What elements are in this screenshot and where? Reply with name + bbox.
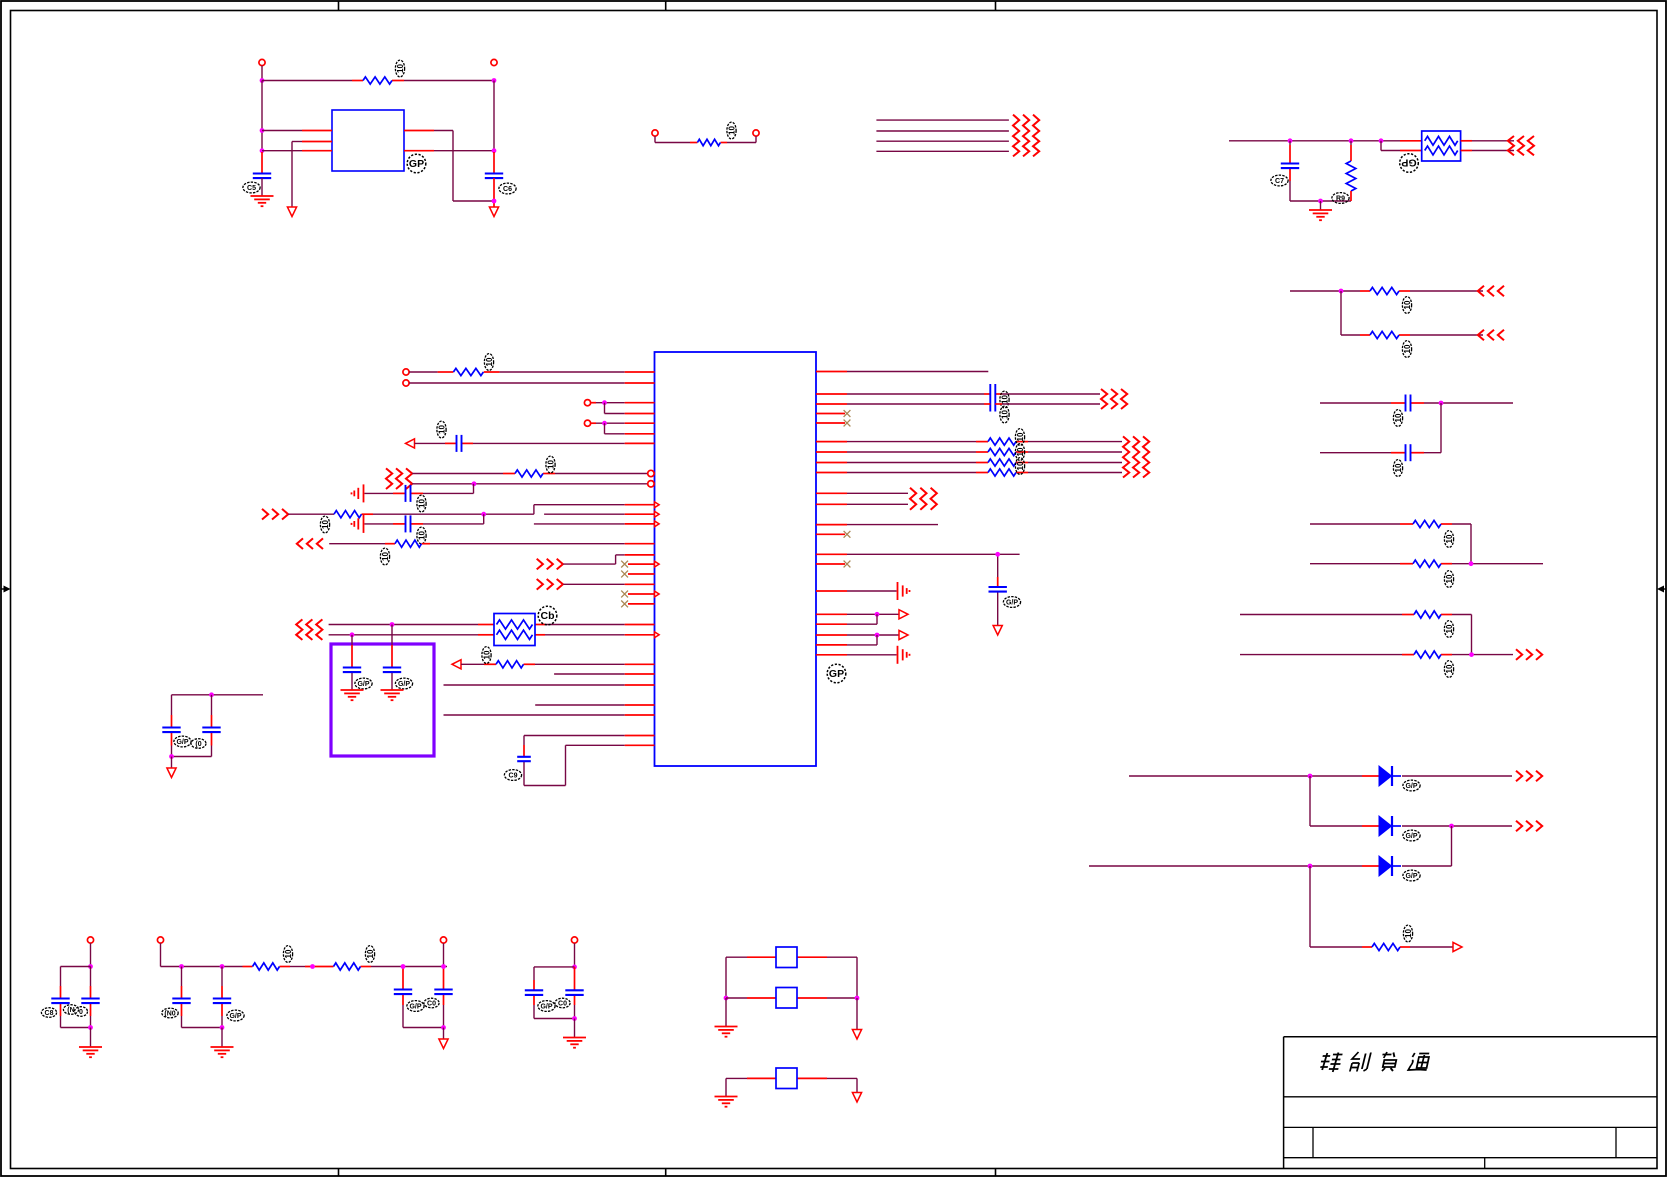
wire gnd stub TR <box>1320 201 1322 210</box>
no-connect X L-564 <box>621 561 628 568</box>
inverted pin bubble L8 <box>648 470 654 476</box>
wire U1-L6 stub <box>605 423 655 434</box>
capacitor C20 <box>213 999 231 1004</box>
resistor R7 <box>1413 560 1441 567</box>
wire C11 branch <box>351 635 353 690</box>
label C23 <box>538 1001 555 1012</box>
diode D1 <box>1379 766 1401 786</box>
label R1 <box>395 60 405 77</box>
wire U1-L11 net with R13 <box>288 505 654 515</box>
ground GND11 <box>563 1038 586 1048</box>
no-connect stub R-564 <box>816 561 850 568</box>
wire RP1 row1 <box>329 624 655 626</box>
label C23b <box>555 998 570 1008</box>
junction RG2 <box>1339 289 1344 294</box>
label C17 <box>41 1008 56 1018</box>
svg-text:G/P: G/P <box>1405 873 1417 880</box>
wire U1-L19 net <box>554 673 654 675</box>
no-connect X L-594 <box>621 591 628 598</box>
logo text Wistron <box>1319 1052 1431 1072</box>
wire D1 net <box>1129 775 1512 777</box>
label C20 <box>227 1010 244 1021</box>
off-page connector L left-arrow <box>297 538 323 549</box>
label D1 <box>1403 780 1420 791</box>
svg-text:10: 10 <box>1404 929 1413 938</box>
ground GND10 <box>211 1047 234 1057</box>
pin P8 <box>584 420 590 426</box>
off-page connector TR left-pair <box>1508 136 1534 155</box>
label C21b <box>424 998 439 1008</box>
resistor R5 <box>1370 331 1399 338</box>
wire R10 net <box>1310 946 1453 948</box>
resistor R3 (vertical) <box>1346 161 1356 191</box>
junction R13b <box>875 612 880 617</box>
wire U1-L1 net with R11 <box>409 371 654 373</box>
wire BL1 top <box>90 943 92 966</box>
pin P3 <box>652 130 658 136</box>
capacitor C12 <box>162 728 180 733</box>
wire BL1 right cap branch <box>90 967 92 1028</box>
wire DG vert2 <box>1451 826 1453 866</box>
power arrow A11 <box>852 1030 861 1040</box>
label C9 <box>504 770 521 781</box>
label R16 <box>1015 429 1025 446</box>
svg-text:G/P: G/P <box>409 1003 421 1010</box>
resistor R12 <box>515 470 543 477</box>
pin P10 <box>157 937 163 943</box>
no-connect X L-574 <box>621 571 628 578</box>
wire C3 bottom rail <box>1290 200 1351 202</box>
wire U1-R16 net <box>816 635 877 645</box>
label C19 <box>162 1008 178 1018</box>
resistor R8 <box>1414 611 1441 618</box>
wire BL4 gnd <box>574 1019 576 1038</box>
label C12 <box>174 736 191 747</box>
junction DG-A <box>1308 774 1313 779</box>
border zone tick bottom 3 <box>995 1169 997 1177</box>
svg-text:R9: R9 <box>1336 195 1345 202</box>
junction FB-A <box>724 996 729 1001</box>
ferrite bead FB1 <box>776 947 797 968</box>
pin P6 <box>403 380 409 386</box>
power arrow A2 <box>489 207 498 217</box>
junction R15b <box>875 633 880 638</box>
power arrow A3 <box>1453 942 1462 951</box>
wire BL2 rail <box>161 966 448 968</box>
ground GND12 <box>715 1027 738 1037</box>
capacitor C7 <box>406 485 411 502</box>
label R6 <box>1444 531 1454 548</box>
capacitor C2 <box>485 174 503 179</box>
off-page connector L single3 <box>537 579 563 590</box>
svg-text:G/P: G/P <box>229 1013 241 1020</box>
svg-text:C9: C9 <box>509 772 518 779</box>
junction L9 <box>472 481 477 486</box>
no-connect stub L-604 <box>628 603 655 605</box>
svg-text:G/P: G/P <box>540 1003 552 1010</box>
no-connect stub L-564 <box>628 563 655 565</box>
resistor R14 <box>395 540 422 547</box>
wire link with R2 pins <box>655 136 756 142</box>
wire C3 branch <box>1289 141 1291 201</box>
svg-text:Cb: Cb <box>541 610 555 622</box>
wire U1-L4 stub <box>605 403 655 414</box>
capacitor C22 <box>434 990 452 995</box>
capacitor C18 <box>81 999 99 1004</box>
power arrow A12 <box>852 1093 861 1103</box>
wire RG3 vert <box>1440 403 1442 453</box>
label R8 <box>1444 621 1454 638</box>
wire RG5 top <box>1240 614 1472 616</box>
wire RG2 bottom <box>1341 334 1483 336</box>
wire U1-L22 net <box>444 714 655 716</box>
wire U1-R6 net with R18 <box>816 462 1122 464</box>
wire FB right rail <box>856 957 858 998</box>
resistor pack RP2 <box>1422 131 1461 161</box>
resistor R10 <box>1372 943 1400 950</box>
label R18 <box>1015 458 1025 475</box>
no-connect stub R-413 <box>816 410 850 417</box>
resistor R16 <box>988 438 1016 445</box>
junction BL3-C <box>441 1025 446 1030</box>
bus wire 3 <box>876 140 1009 142</box>
wire RG4 top <box>1310 523 1471 525</box>
junction TL-B <box>492 78 497 83</box>
label C5 <box>1393 460 1403 477</box>
junction BL2-C <box>310 964 315 969</box>
bus wire 2 <box>876 130 1009 132</box>
svg-text:10: 10 <box>1016 432 1025 441</box>
svg-text:G/P: G/P <box>357 681 369 688</box>
wire U1-R8 net <box>816 492 908 494</box>
off-page connector RG2 bottom <box>1478 330 1504 341</box>
wire RG2 vert <box>1340 291 1342 335</box>
IC U1 main chip <box>655 352 817 766</box>
wire BL4 top <box>574 943 576 967</box>
pin P11 <box>440 937 446 943</box>
svg-text:(N: (N <box>67 1007 74 1014</box>
wire RG5 vert <box>1471 615 1473 655</box>
svg-text:GP: GP <box>829 668 844 680</box>
power arrow A8 <box>899 610 908 619</box>
wire BL2 gnd <box>221 1028 223 1048</box>
wire LM left branch <box>172 695 212 757</box>
label C14 <box>1000 391 1010 408</box>
wire BL1 left cap branch <box>61 967 91 1028</box>
junction TL-D <box>260 148 265 153</box>
wire U1-R4 net with R16 <box>816 441 1122 443</box>
svg-text:C6: C6 <box>503 186 512 193</box>
off-page connector D2 <box>1516 821 1542 832</box>
wire U1-L12 stub <box>544 513 654 515</box>
wire U1-L8 net with R12 <box>412 473 647 475</box>
wire R3 top <box>1350 141 1352 161</box>
junction L11 <box>481 512 486 517</box>
power arrow A4 (left) <box>406 439 415 448</box>
wire left rail <box>261 81 263 151</box>
label R2 <box>727 122 737 139</box>
capacitor C3 <box>1281 164 1299 169</box>
off-page connector RG5 <box>1516 649 1542 660</box>
wire BL3 left cap branch <box>403 967 444 1028</box>
wire RP1 row2 <box>329 634 655 636</box>
wire C10 branch <box>391 625 393 691</box>
pin arrow L-564 <box>655 561 660 567</box>
capacitor C16 <box>989 587 1007 592</box>
svg-text:10: 10 <box>1403 300 1412 309</box>
junction BL1-A <box>88 964 93 969</box>
wire BL4 right cap branch <box>574 967 576 1019</box>
wire LM right branch <box>211 695 213 757</box>
resistor R1 <box>363 77 392 84</box>
ferrite bead FB3 <box>776 1068 797 1089</box>
wire RG4 vert <box>1470 524 1472 564</box>
junction TL-E <box>492 148 497 153</box>
label GP U1 <box>827 664 846 683</box>
ground GND5 <box>381 690 404 700</box>
svg-text:10: 10 <box>1445 534 1454 543</box>
svg-text:(N0: (N0 <box>164 1010 175 1017</box>
no-connect stub R-534 <box>816 531 850 538</box>
capacitor C11 <box>343 668 361 673</box>
label R9b <box>1444 661 1454 678</box>
junction TL-C <box>260 128 265 133</box>
wire U1-R14 net <box>816 614 877 624</box>
wire U1-R11 cap net <box>816 554 1020 625</box>
wire U2 pin2 with stub down <box>292 142 332 208</box>
wire U1-L5 net <box>591 422 655 424</box>
svg-text:10: 10 <box>438 425 447 434</box>
ferrite bead FB2 <box>776 988 797 1009</box>
svg-text:10: 10 <box>1403 344 1412 353</box>
wire U1-L13 cap net <box>365 514 484 524</box>
svg-text:10: 10 <box>1445 624 1454 633</box>
label GP U2 <box>407 154 426 173</box>
junction RP1-b <box>350 632 355 637</box>
svg-text:C5: C5 <box>247 185 256 192</box>
junction DG-C <box>1308 864 1313 869</box>
label GP RP2 (rotated) <box>1400 154 1419 173</box>
wire TR main <box>1229 140 1422 142</box>
svg-text:C7: C7 <box>1275 178 1284 185</box>
junction RG5 <box>1469 652 1474 657</box>
wire U1-L23 cap bridge <box>524 736 655 786</box>
label D2 <box>1403 830 1420 841</box>
svg-text:G/P: G/P <box>1405 783 1417 790</box>
junction RG3 <box>1439 401 1444 406</box>
pin arrow L-514 <box>655 511 660 517</box>
wire U1-R2 cap net <box>816 393 1100 395</box>
off-page connector bus right <box>1013 115 1039 157</box>
junction TR-B <box>1349 138 1354 143</box>
ground GND7 (rotated) <box>898 582 910 600</box>
capacitor C14 pair plates <box>990 384 995 412</box>
wire U1-L20 net <box>444 684 655 686</box>
IC U2 regulator box <box>332 110 404 171</box>
wire BL1 gnd <box>90 1028 92 1048</box>
svg-text:10: 10 <box>485 357 494 366</box>
wire left rail red to C1 <box>261 152 263 174</box>
power arrow A10 <box>439 1039 448 1049</box>
no-connect stub L-594 <box>628 593 655 595</box>
wire BL4 rail <box>534 966 575 968</box>
label C11 <box>355 678 372 689</box>
resistor R21 <box>334 963 361 970</box>
wire BL3 down <box>443 1028 445 1040</box>
label R21 <box>365 946 375 963</box>
off-page connector L single1 <box>262 509 288 520</box>
diode D3 <box>1379 856 1401 876</box>
wire U1-L21 net <box>535 704 654 706</box>
svg-text:10: 10 <box>396 64 405 73</box>
junction BL3-B <box>441 964 446 969</box>
junction TL-A <box>260 78 265 83</box>
svg-text:10: 10 <box>418 531 427 540</box>
capacitor C1 <box>253 174 271 179</box>
wire U1-L15 net with R14 <box>329 543 654 545</box>
resistor R11 <box>453 368 483 375</box>
label C7 <box>417 495 427 512</box>
wire RP2 out1 <box>1461 140 1514 142</box>
pin arrow L-523 <box>655 521 660 527</box>
label C12b <box>191 739 206 749</box>
wire BL4 left cap branch <box>534 967 575 1019</box>
junction LM-B <box>169 754 174 759</box>
wire FB gnd stub <box>725 998 727 1027</box>
pin P7 <box>584 400 590 406</box>
wire U1-R15 net <box>816 634 899 636</box>
capacitor C19 <box>172 999 190 1004</box>
svg-text:GP: GP <box>1401 156 1416 168</box>
border center arrow right <box>1657 586 1666 593</box>
wire BL2 mid cap branch <box>221 967 223 1028</box>
off-page connector R quad <box>1123 436 1149 477</box>
capacitor C21 <box>394 990 412 995</box>
capacitor C24 <box>565 990 583 995</box>
wire U1-R3 net <box>816 403 1100 405</box>
power arrow A5 (left) <box>452 660 461 669</box>
capacitor C4 <box>1406 395 1411 412</box>
power arrow A1 <box>287 207 296 217</box>
junction TL-F <box>492 199 497 204</box>
wire U1-L16 net <box>616 555 655 564</box>
wire FB3 net <box>726 1078 857 1096</box>
label C4 <box>1393 410 1403 427</box>
svg-text:10: 10 <box>1445 574 1454 583</box>
ground GND8 (rotated) <box>898 646 910 664</box>
wire right rail red to C2 <box>493 152 495 174</box>
ground GND9 <box>79 1047 102 1057</box>
svg-text:10: 10 <box>366 949 375 958</box>
wire U1-R13 net <box>816 613 899 615</box>
svg-text:G/P: G/P <box>176 739 188 746</box>
wire R3 bottom <box>1350 191 1352 201</box>
svg-text:0: 0 <box>79 1009 83 1016</box>
wire U1-R1 stub <box>816 371 988 373</box>
svg-text:C0: C0 <box>558 1000 567 1007</box>
resistor R20 <box>253 963 280 970</box>
junction BL4-A <box>572 965 577 970</box>
no-connect X L-604 <box>621 601 628 608</box>
wire U1-L3 net <box>591 402 655 404</box>
resistor R9 <box>1414 651 1441 658</box>
capacitor C10 <box>383 668 401 673</box>
pin P12 <box>571 937 577 943</box>
label D3 <box>1403 870 1420 881</box>
bus wire 4 <box>876 150 1009 152</box>
wire DG vert3 <box>1309 866 1311 947</box>
capacitor C9 <box>517 757 531 761</box>
resistor R13 <box>334 511 362 518</box>
wire P1 down <box>261 66 263 81</box>
svg-text:10: 10 <box>1394 413 1403 422</box>
wire U2 pin3 <box>262 150 332 152</box>
label R10 <box>1403 925 1413 942</box>
wire U1-R9 net <box>816 503 908 505</box>
label C1 <box>243 182 260 193</box>
svg-text:10: 10 <box>547 460 556 469</box>
wire BL2 top <box>160 943 162 966</box>
wire D3 net <box>1089 865 1452 867</box>
wire LM down <box>171 757 173 769</box>
no-connect stub L-574 <box>628 573 655 575</box>
label C2 <box>499 183 516 194</box>
wire FB1 net <box>726 956 857 958</box>
pin P1 (top-left, left terminal) <box>259 59 265 65</box>
power arrow A7 <box>993 626 1002 636</box>
label R4 <box>1402 297 1412 314</box>
wire BL1 rail <box>61 966 91 968</box>
pin P9 <box>87 937 93 943</box>
ground GND3 (rotated) <box>352 484 364 502</box>
wire RP2 out2 <box>1461 150 1514 152</box>
svg-text:C0: C0 <box>427 1000 436 1007</box>
border zone tick top 2 <box>665 1 667 11</box>
wire U1-L14 stub <box>534 523 655 525</box>
label R3 <box>1332 193 1349 204</box>
junction BL4-B <box>572 1016 577 1021</box>
wire U1-L18 net with R15 <box>461 663 655 665</box>
label Cb RP1 <box>538 606 557 625</box>
resistor R6 <box>1413 520 1441 527</box>
resistor R15 <box>496 661 524 668</box>
wire U1-L7 net with C6 <box>415 442 655 444</box>
wire U1-R12 gnd net <box>816 590 897 592</box>
label R11 <box>484 354 494 371</box>
label R12 <box>546 456 556 473</box>
label C3 <box>1271 175 1288 186</box>
svg-text:10: 10 <box>418 499 427 508</box>
junction TR-A <box>1288 138 1293 143</box>
off-page connector RP1 in <box>296 619 322 640</box>
capacitor C23 <box>525 990 543 995</box>
label C15 <box>1000 406 1010 423</box>
wire FB left rail <box>725 957 727 998</box>
junction LM-A <box>209 692 214 697</box>
label R15 <box>482 647 492 664</box>
off-page connector RG2 top <box>1478 286 1504 297</box>
svg-text:10: 10 <box>1001 395 1010 404</box>
resistor R4 <box>1370 287 1399 294</box>
label C6b <box>437 421 447 438</box>
wire RG3 top <box>1320 402 1513 404</box>
svg-text:10: 10 <box>1394 463 1403 472</box>
junction BL3-A <box>401 964 406 969</box>
border zone tick top 1 <box>338 1 340 11</box>
wire BL2 left cap branch <box>182 967 223 1028</box>
junction BL1-B <box>88 1025 93 1030</box>
junction BL2-D <box>220 1025 225 1030</box>
